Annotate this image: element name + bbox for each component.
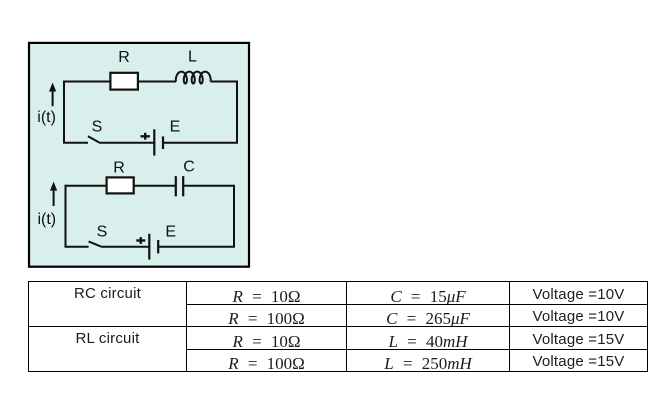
wire: RC right vertical [233, 185, 235, 247]
mint schematic panel [29, 43, 249, 267]
wire: RL top left segment [63, 81, 110, 83]
battery E short plate (RL circuit) [162, 136, 164, 149]
wire: RC top right segment (capacitor to corner) [183, 185, 234, 187]
wire: RC bottom far-left segment (switch to corner) [65, 246, 89, 248]
label + (RL battery) [141, 133, 150, 140]
svg-text:C: C [183, 159, 195, 176]
wire: RL top right segment (inductor to corner) [211, 81, 238, 83]
wire: RL top middle segment (resistor to inductor) [138, 81, 176, 83]
svg-text:R: R [113, 159, 125, 176]
wire: RL right vertical [236, 81, 238, 143]
parameter table [28, 281, 648, 372]
svg-text:i(t): i(t) [37, 211, 56, 228]
label + (RC battery) [136, 237, 145, 244]
wire: RL bottom far-left segment (switch to corner) [63, 142, 88, 144]
resistor R (RL circuit) [110, 73, 137, 90]
wire: RC top left segment [65, 185, 107, 187]
svg-text:i(t): i(t) [37, 109, 56, 126]
wire: RL left vertical [63, 82, 65, 143]
current arrow i(t) (RL circuit) [52, 89, 54, 106]
svg-text:L: L [188, 48, 197, 65]
svg-text:E: E [165, 224, 176, 241]
inductor L (RL circuit) [176, 72, 211, 84]
wire: RC left vertical [65, 185, 67, 247]
battery E long plate (RC circuit) [148, 234, 150, 260]
capacitor C left plate (RC circuit) [175, 176, 177, 196]
wire: RL bottom right segment (corner to battery) [163, 142, 238, 144]
wire: RC bottom right segment (corner to battery) [158, 246, 235, 248]
svg-text:E: E [170, 119, 181, 136]
resistor R (RC circuit) [107, 177, 134, 193]
wire: RC bottom left segment (battery to switch) [101, 246, 150, 248]
svg-text:S: S [97, 224, 108, 241]
current arrow i(t) (RC circuit) [53, 188, 55, 206]
svg-text:R: R [118, 49, 130, 66]
battery E short plate (RC circuit) [157, 240, 159, 253]
wire: RC top middle segment (resistor to capacitor) [134, 185, 176, 187]
switch S blade (RC circuit) [89, 241, 101, 246]
svg-text:S: S [92, 119, 103, 136]
wire: RL bottom left segment (battery to switch) [99, 142, 154, 144]
capacitor C right plate (RC circuit) [182, 176, 184, 196]
battery E long plate (RL circuit) [153, 129, 155, 155]
switch S blade (RL circuit) [88, 136, 99, 142]
